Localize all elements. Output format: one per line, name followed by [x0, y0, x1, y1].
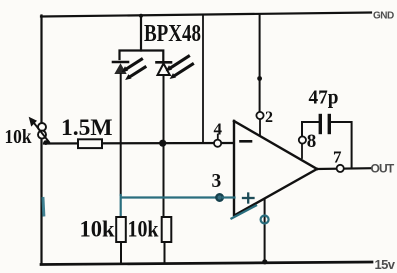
- wire photodiode feed from top rail: [140, 16, 142, 51]
- svg-text:2: 2: [265, 109, 273, 126]
- svg-text:GND: GND: [373, 11, 394, 22]
- wire photodiode box top bar: [120, 51, 164, 61]
- wire pin2 vertical from top rail: [259, 15, 261, 112]
- wire left diode column (teal part): [120, 195, 122, 217]
- svg-text:15v: 15v: [375, 257, 396, 272]
- terminal pin 4: [214, 140, 221, 147]
- svg-text:3: 3: [212, 171, 222, 192]
- wire left diode column (black part): [120, 74, 122, 195]
- teal artifact mark on left wire: [42, 199, 46, 216]
- wire from pot wiper to op-amp pin4: [44, 142, 233, 145]
- terminal pin 2: [256, 112, 263, 119]
- wire below R2 to bottom rail: [120, 242, 122, 264]
- photodiode D1 (left of BPX48): [113, 59, 145, 80]
- svg-text:BPX48: BPX48: [144, 21, 201, 47]
- node junction dot at right diode column x pin4 wire: [159, 140, 166, 147]
- svg-text:7: 7: [333, 148, 342, 167]
- wire left vertical: [40, 16, 42, 264]
- wire bottom rail 15v: [41, 262, 372, 265]
- svg-text:10k: 10k: [80, 217, 115, 242]
- wire top rail GND: [41, 13, 371, 17]
- op-amp plus marker (teal): [243, 194, 254, 203]
- terminal V- (teal circle): [261, 216, 269, 224]
- terminal pin 3 (teal): [216, 194, 223, 201]
- capacitor C1 47p feedback loop: [302, 116, 352, 168]
- wire below R3 to bottom rail: [164, 242, 166, 263]
- svg-text:4: 4: [214, 120, 223, 139]
- wire pin3 (teal): [122, 196, 216, 198]
- svg-text:8: 8: [307, 131, 317, 152]
- svg-text:10k: 10k: [128, 217, 159, 242]
- wire op-amp V- to bottom rail: [264, 200, 266, 263]
- resistor R3 10k (right): [162, 217, 172, 242]
- photodiode D2 (right of BPX48): [157, 56, 193, 79]
- resistor R1 1.5M: [78, 139, 102, 148]
- svg-text:1.5M: 1.5M: [61, 115, 113, 141]
- terminal pin 8: [299, 136, 306, 143]
- wire right diode column: [163, 75, 165, 217]
- op-amp U1 triangle: [232, 121, 318, 219]
- potentiometer RP1 10k: [29, 117, 49, 145]
- wire vertical from top rail to pin4 wire: [202, 15, 204, 143]
- op-amp minus marker: [241, 140, 252, 143]
- svg-text:47p: 47p: [309, 87, 339, 109]
- svg-text:10k: 10k: [5, 126, 33, 148]
- terminal pin 7: [337, 165, 344, 172]
- wire op-amp output: [317, 167, 372, 170]
- svg-text:OUT: OUT: [371, 162, 395, 176]
- resistor R2 10k (left): [116, 217, 126, 242]
